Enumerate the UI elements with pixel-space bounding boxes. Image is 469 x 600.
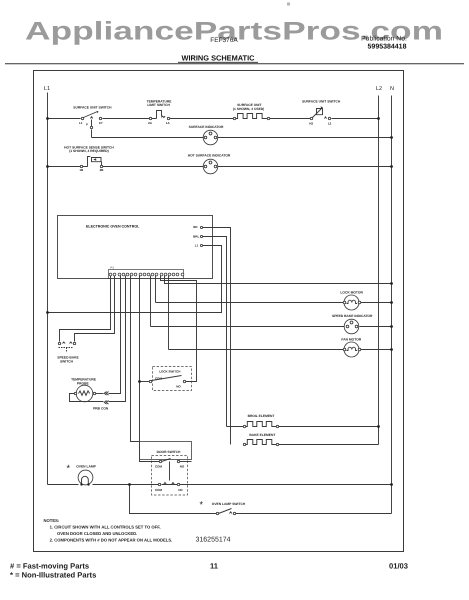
wire probe top (109, 276, 121, 394)
svg-text:SPEED BAKE INDICATOR: SPEED BAKE INDICATOR (332, 314, 373, 318)
wire lamp switch to N rail (236, 513, 392, 515)
svg-text:NO: NO (176, 385, 181, 389)
svg-text:P: P (86, 122, 88, 126)
svg-text:NO: NO (180, 464, 185, 468)
wire to fan rung (168, 276, 170, 350)
wire rung2 surface indicator line (92, 137, 392, 139)
svg-text:Publication No.: Publication No. (361, 36, 407, 43)
svg-text:DOOR SWITCH: DOOR SWITCH (157, 450, 181, 454)
svg-text:BROIL ELEMENT: BROIL ELEMENT (248, 414, 275, 418)
bake element (243, 433, 378, 445)
svg-text:SURFACE UNIT SWITCH: SURFACE UNIT SWITCH (73, 105, 112, 109)
junction lock switch COM tee (138, 380, 141, 383)
lock switch (141, 367, 192, 391)
svg-text:LIMIT SWITCH: LIMIT SWITCH (147, 103, 170, 107)
svg-text:BRL: BRL (193, 235, 199, 239)
svg-text:LOCK SWITCH: LOCK SWITCH (159, 369, 180, 373)
svg-text:* = Non-Illustrated Parts: * = Non-Illustrated Parts (10, 571, 96, 580)
svg-text:OVEN LAMP SWITCH: OVEN LAMP SWITCH (212, 502, 246, 506)
notes (44, 518, 173, 543)
svg-text:COM: COM (155, 376, 163, 380)
svg-text:HOT SURFACE INDICATOR: HOT SURFACE INDICATOR (188, 153, 231, 157)
junction L1 rail / rung1 (46, 117, 49, 120)
lock motor rung (156, 302, 392, 304)
fan motor M2 (341, 338, 361, 357)
svg-text:PRB CON: PRB CON (93, 406, 109, 410)
svg-text:NOTES:: NOTES: (44, 518, 60, 523)
svg-text:# = Fast-moving Parts: # = Fast-moving Parts (10, 562, 89, 571)
wire to speed bake indicator rung (150, 276, 152, 327)
border frame (34, 71, 404, 552)
wire B to N rail (165, 276, 392, 284)
wire L1 terminal to L1 rail (48, 246, 222, 313)
wire BRL to broil element (203, 237, 227, 427)
svg-text:316255174: 316255174 (196, 537, 231, 544)
lock motor M1 (340, 290, 363, 310)
wire bundle from strip: speed bake sw 1 (60, 276, 111, 342)
hot surface indicator lamp (188, 153, 231, 173)
temperature limit switch (147, 100, 173, 126)
wire L2 rail (378, 96, 380, 445)
electronic oven control U1 (58, 216, 213, 279)
svg-text:*: * (67, 463, 71, 473)
svg-text:BAKE ELEMENT: BAKE ELEMENT (249, 433, 275, 437)
oven lamp (67, 463, 97, 486)
wire speed bake sw 2 (75, 276, 115, 342)
surface indicator lamp (189, 125, 224, 145)
svg-text:L1: L1 (79, 121, 83, 125)
speed bake indicator lamp (332, 314, 373, 334)
svg-text:1P: 1P (99, 121, 103, 125)
svg-text:OVEN DOOR CLOSED AND UNLOCKED.: OVEN DOOR CLOSED AND UNLOCKED. (57, 531, 137, 536)
svg-text:SURFACE UNIT SWITCH: SURFACE UNIT SWITCH (302, 100, 341, 104)
svg-text:L1: L1 (195, 244, 199, 248)
svg-text:*: * (200, 500, 204, 510)
junction N rail / lock motor rung (390, 301, 393, 304)
wire to lock COM and door COM (140, 276, 160, 462)
wire probe bottom (109, 276, 126, 402)
svg-text:P1: P1 (111, 266, 115, 270)
svg-text:11: 11 (210, 562, 219, 571)
speed bake indicator rung (151, 326, 392, 328)
junction N rail / fan motor rung (390, 348, 393, 351)
hot surface sense switch (64, 145, 114, 172)
svg-text:FAN MOTOR: FAN MOTOR (341, 338, 361, 342)
EOC terminal strip P1 (109, 266, 184, 279)
wire to lock motor rung (155, 276, 157, 303)
fan motor rung (169, 349, 392, 351)
svg-text:SWITCH: SWITCH (60, 359, 74, 363)
svg-text:01/03: 01/03 (389, 562, 408, 571)
junction N rail / surface indicator rung (390, 136, 393, 139)
svg-text:SURFACE INDICATOR: SURFACE INDICATOR (189, 125, 224, 129)
svg-text:L2: L2 (376, 86, 382, 92)
temperature probe (70, 377, 126, 410)
wire rung3 hot surface line (48, 166, 392, 168)
junction L2 rail / broil element (377, 425, 380, 428)
svg-text:L1: L1 (44, 86, 50, 92)
svg-text:WIRING SCHEMATIC: WIRING SCHEMATIC (182, 54, 256, 63)
oven lamp switch (200, 500, 246, 515)
junction N rail / wire B (390, 282, 393, 285)
wire junction drop to lamp switch rung (130, 485, 217, 514)
junction N rail / hot surface rung (390, 165, 393, 168)
junction N rail / main bottom rung (390, 483, 393, 486)
wire BK to bake element (203, 228, 231, 445)
wire N rail (391, 96, 393, 514)
svg-text:FEF376A: FEF376A (210, 37, 238, 44)
wire A to lock switch NO (161, 276, 197, 382)
wire to door switch box (131, 276, 140, 442)
svg-text:COM: COM (155, 488, 163, 492)
junction L1 rail / EOC L1 wire (46, 311, 49, 314)
svg-text:L2: L2 (328, 122, 332, 126)
wire rung1 (48, 118, 379, 120)
svg-text:PROBE: PROBE (77, 381, 90, 385)
wire L1 rail (47, 93, 49, 485)
door switch assembly (140, 442, 192, 496)
header rule (5, 63, 464, 65)
junction N rail / speed bake indicator rung (390, 325, 393, 328)
junction main rung / lamp switch drop (128, 483, 131, 486)
svg-text:OVEN LAMP: OVEN LAMP (76, 464, 96, 468)
svg-text:(1 SHOWN, 4 USED): (1 SHOWN, 4 USED) (233, 107, 264, 111)
svg-text:LOCK MOTOR: LOCK MOTOR (340, 290, 363, 294)
svg-text:2. COMPONENTS WITH # DO NOT: 2. COMPONENTS WITH # DO NOT APPEAR ON AL… (50, 538, 173, 543)
speed bake switch (57, 342, 79, 363)
junction L1 rail / hot surface rung (46, 165, 49, 168)
svg-text:COM: COM (155, 464, 163, 468)
svg-text:1. CIRCUIT SHOWN WITH ALL CON: 1. CIRCUIT SHOWN WITH ALL CONTROLS SET T… (50, 525, 161, 530)
surface unit switch S2 (302, 100, 341, 126)
junction L2 rail / rung1 (377, 117, 380, 120)
svg-text:5995384418: 5995384418 (368, 44, 407, 51)
svg-text:H2: H2 (309, 122, 313, 126)
svg-text:ELECTRONIC OVEN CONTROL: ELECTRONIC OVEN CONTROL (86, 225, 140, 229)
svg-text:(1 SHOWN, 4 REQUIRED): (1 SHOWN, 4 REQUIRED) (69, 149, 109, 153)
broil element (227, 414, 379, 427)
surface unit element (233, 103, 270, 120)
surface unit switch S1 (73, 105, 112, 137)
main bottom rung (48, 484, 392, 486)
footer (10, 562, 408, 580)
svg-text:N: N (390, 86, 394, 92)
